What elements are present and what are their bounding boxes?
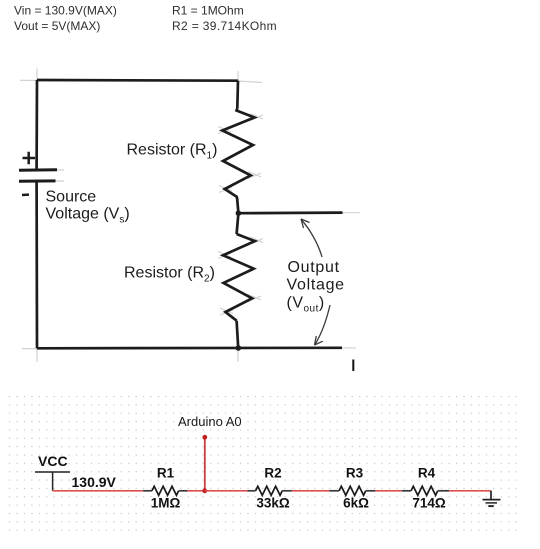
battery V1 bottom plate [19,179,56,182]
svg-text:130.9V: 130.9V [72,474,117,490]
battery V1 top plate [19,168,57,172]
power symbol VCC [35,472,70,491]
node: junction dot [202,488,207,493]
wire: R1 to junction (red) [188,490,205,492]
wire: node to R2 [237,213,239,234]
wire: R2 to bottom [237,321,239,348]
text cursor bar [352,360,354,372]
wire: junction to Arduino A0 (red vertical) [204,437,206,491]
wire: R3 to R4 (red) [375,490,402,492]
battery V1 minus sign [22,193,29,196]
svg-text:Vout = 5V(MAX): Vout = 5V(MAX) [14,19,100,33]
arrow: Vout to bottom wire [315,305,330,345]
wire: VCC to R1 (red) [53,490,144,492]
svg-text:714Ω: 714Ω [412,496,446,511]
resistor R2 zigzag [223,234,255,321]
svg-text:R1: R1 [157,466,175,481]
wire: R2 to R3 (red) [292,490,330,492]
wire: bottom horizontal [37,346,342,349]
wire: left vertical lower [35,183,38,349]
wire: middle horizontal (Vout top) [238,211,342,214]
svg-text:R1 = 1MOhm: R1 = 1MOhm [172,4,244,18]
svg-text:Arduino A0: Arduino A0 [178,414,242,429]
svg-text:33kΩ: 33kΩ [256,496,290,511]
node: middle junction dot [236,210,242,216]
svg-text:1MΩ: 1MΩ [151,496,181,511]
wire: left vertical upper (to battery) [35,80,38,170]
svg-text:Voltage: Voltage [287,277,345,294]
svg-text:Output: Output [288,259,340,276]
svg-text:6kΩ: 6kΩ [343,496,369,511]
wire: R1 to middle node [237,198,238,213]
svg-text:R2 = 39.714KOhm: R2 = 39.714KOhm [172,19,277,33]
resistor R4 [402,490,411,492]
wire: top horizontal [37,79,238,82]
node: bottom junction dot [236,345,242,351]
battery V1 plus sign [23,152,36,164]
wire: junction to R2 (red) [205,490,248,492]
resistor R1 [143,490,152,492]
sketch guide marks (hand-drawn overshoot) [20,69,360,363]
svg-text:Vin = 130.9V(MAX): Vin = 130.9V(MAX) [14,4,117,18]
resistor R1 zigzag [222,109,254,199]
svg-text:R2: R2 [264,466,281,481]
wire: right vertical from top corner [236,81,239,109]
svg-text:Source: Source [46,189,97,206]
svg-text:R3: R3 [346,466,364,481]
arrow: Vout to middle wire [302,220,323,257]
node: A0 terminal dot [202,435,207,440]
svg-text:VCC: VCC [38,453,68,469]
ground [490,491,492,499]
wire: R4 to ground (red) [449,490,491,492]
resistor R2 [247,490,255,492]
svg-text:R4: R4 [418,466,436,481]
resistor R3 [330,490,340,492]
